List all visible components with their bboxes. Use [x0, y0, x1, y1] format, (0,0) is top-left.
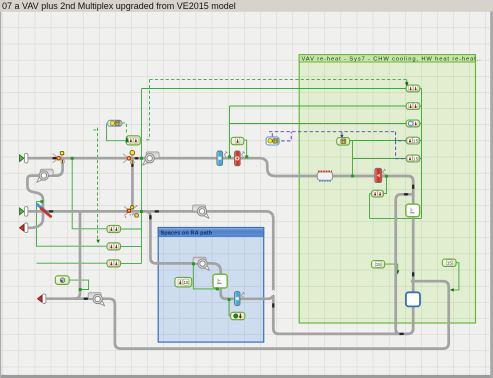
air inlet 2	[20, 208, 24, 215]
node room R3 bottom	[216, 287, 219, 290]
wire vertical x=229 from bus corners down to duct node	[229, 106, 231, 156]
duct main supply run y=158 with drop to y=176 and room riser x=413	[29, 158, 414, 330]
room R2 (on riser, conditioned)	[406, 292, 420, 306]
flow arrow on bottom U	[399, 333, 404, 335]
controller P1 flow	[372, 261, 385, 269]
svg-text:15: 15	[447, 261, 453, 266]
svg-text:07 a VAV plus 2nd Multiplex up: 07 a VAV plus 2nd Multiplex upgraded fro…	[2, 1, 236, 11]
wire T1 left to duct node x=72.3	[72, 159, 107, 229]
wire T2/T3 left to x=36.1 riser to HX node	[37, 202, 108, 264]
wire dashed from time switch right side down	[122, 123, 127, 134]
heating coil HC1	[235, 151, 241, 166]
svg-text:x: x	[136, 204, 138, 208]
room R1 (on riser)	[406, 204, 420, 217]
wire multiplex rect: risers and rails	[353, 89, 422, 219]
flow arrow on x=273 drop	[272, 303, 274, 308]
wire zone controller bus from divider box	[350, 140, 422, 142]
badge CC1	[224, 151, 228, 156]
wire reheat controller stubs	[370, 178, 387, 194]
controller return fan	[55, 276, 69, 285]
green region border and title: VAV re-heat - Sys7	[299, 55, 475, 323]
flow arrow before fan F2	[135, 157, 139, 159]
controller U4	[406, 137, 420, 144]
duct inner return riser x=395.7	[396, 194, 413, 334]
node before radiator rail	[351, 175, 354, 178]
wire return-fan controller to duct node	[69, 280, 89, 289]
duct return U at bottom of multiplex	[273, 321, 413, 334]
duct recirc branch from damper1 through fan F1	[49, 160, 63, 176]
flow arrow on RA branch drop	[149, 215, 151, 220]
duct recirculation drop J2 to J3	[131, 160, 134, 211]
fan F2 supply main	[143, 152, 159, 165]
wire dashed long drop x=97.6	[93, 128, 99, 240]
flow arrow on room riser mid	[412, 272, 414, 277]
fan F4 return	[88, 293, 104, 306]
controller T1	[107, 225, 121, 232]
node before fan F5	[192, 262, 195, 265]
flow arrow supply inlet	[52, 157, 57, 159]
badge HC2	[382, 169, 386, 174]
damper junction J1	[53, 151, 65, 163]
svg-text:15: 15	[376, 262, 382, 267]
flow arrow on room riser top	[412, 185, 414, 190]
controller U1	[406, 85, 420, 92]
controller T2	[107, 243, 121, 250]
badge CC2	[241, 292, 245, 297]
node on exhaust above HX	[40, 200, 43, 203]
node before HC1	[228, 155, 231, 158]
wire RA coil node to RA controller	[229, 301, 231, 316]
controller U3	[406, 120, 420, 127]
window border edges	[0, 375, 493, 378]
reheat coil HC2	[375, 168, 382, 182]
blue region border and title: Spaces on RA path	[158, 228, 264, 343]
duct branch to RA spaces	[147, 211, 221, 288]
room unit radiator	[317, 171, 332, 181]
white flow notch on x=273	[272, 290, 275, 295]
svg-text:15: 15	[413, 138, 419, 143]
controller divider box	[337, 138, 350, 146]
damper mixing cluster J3	[124, 204, 138, 219]
node before coil CC2	[228, 298, 231, 301]
node on duct after C2	[140, 157, 143, 160]
badge HC1	[241, 151, 245, 156]
controller U2	[406, 103, 420, 110]
flow arrow supply2 after cluster	[155, 210, 160, 212]
svg-text:VAV re-heat - Sys7 - CHW cooli: VAV re-heat - Sys7 - CHW cooling, HW hea…	[302, 56, 482, 62]
heat recovery HX	[38, 205, 51, 217]
wire flow controller P1 to duct	[385, 264, 398, 271]
exhaust outlet 1	[20, 224, 24, 231]
fan F6 second supply	[193, 205, 209, 218]
damper junction J2	[123, 150, 135, 163]
flow arrow on recirc drop	[131, 163, 133, 167]
controller C2 (fan duct)	[126, 136, 140, 145]
RA cooling coil CC2	[235, 292, 241, 306]
controller P2 flow	[442, 259, 456, 266]
controller RA coil	[231, 312, 245, 319]
wire vertical x=141.5 long drop	[141, 89, 143, 264]
duct RA room exit through coil to x=273 merge	[221, 287, 274, 299]
air inlet 1	[20, 155, 24, 162]
cooling coil CC1	[217, 151, 223, 165]
wire green bus y=88 to controller U1	[142, 88, 407, 90]
node on return duct	[79, 288, 82, 291]
wire flow controller P2 to duct	[453, 263, 459, 290]
wire heating coil controller drop	[244, 140, 247, 156]
duct second supply main y=211 down x=273	[29, 211, 274, 323]
exhaust outlet 2	[38, 295, 42, 302]
flow arrow supply2 after HX	[49, 210, 54, 212]
node after cluster J3	[140, 210, 143, 213]
flow arrow before return fan F4	[84, 298, 89, 300]
flow arrow on inner return link	[404, 193, 409, 195]
wire dashed profile line top	[150, 79, 407, 81]
duct exhaust-side bottom run to far right riser	[72, 281, 449, 348]
controller heating coil	[231, 137, 244, 144]
profile box TS2	[266, 137, 279, 145]
svg-text:15: 15	[183, 280, 189, 285]
node after reheat coil	[385, 175, 388, 178]
room R3 (RA path)	[213, 274, 227, 288]
fan F1 supply	[37, 169, 53, 182]
node after HC1	[245, 155, 248, 158]
wire from time switch down to controller C2	[107, 123, 126, 140]
controller RA room	[175, 277, 192, 287]
wire RA room sensor drop from fan duct node	[193, 265, 216, 289]
wire dashed drop to controller C2 right	[145, 80, 149, 140]
svg-text:x: x	[125, 215, 127, 219]
wire taps from T-cluster boxes to x=141.5	[121, 229, 142, 263]
title bar	[0, 0, 493, 11]
controller U5	[406, 155, 420, 162]
svg-text:15: 15	[413, 156, 419, 161]
actuator arrow into C2	[125, 136, 129, 142]
node on duct after J1	[71, 157, 74, 160]
fan F5 RA path	[193, 257, 209, 270]
time switch TS1	[108, 120, 122, 126]
wire green bus y=106 to controller U2	[230, 105, 407, 107]
wire blue dashed control network	[269, 132, 406, 159]
svg-text:Spaces on RA path: Spaces on RA path	[161, 230, 213, 236]
controller T3	[107, 260, 121, 267]
controller reheat	[371, 190, 383, 197]
VAV re-heat multiplex green region fill	[299, 55, 475, 323]
duct exhaust drop from supply T x=80	[47, 213, 80, 299]
Spaces on RA path blue region fill	[158, 228, 264, 343]
wire green bus y=123.6 to controller U3	[230, 123, 407, 125]
